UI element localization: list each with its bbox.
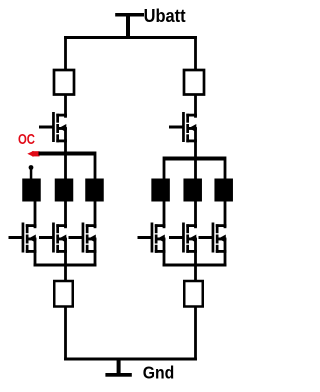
transistor T3 (low side left 2) — [39, 223, 67, 253]
left bus — [39, 152, 97, 156]
right source rail — [163, 264, 227, 267]
svg-text:Ubatt: Ubatt — [144, 6, 186, 26]
wire bus to L5 — [194, 161, 197, 180]
right bus — [163, 157, 227, 161]
left source rail — [34, 264, 97, 267]
wire right drop to R3 — [194, 36, 197, 71]
transistor T2 (low side left 1) — [9, 223, 37, 253]
wire R4 to bottom wire — [194, 307, 197, 361]
svg-text:OC: OC — [18, 132, 35, 148]
wire dot to L1 — [30, 168, 33, 179]
load L6 (coil) — [214, 179, 233, 202]
resistor R1 (top left) — [54, 70, 74, 95]
wire L3 to T4 — [94, 202, 97, 228]
wire T6 source to rail — [163, 250, 166, 267]
transistor T8 (low side right 3) — [199, 223, 227, 253]
resistor R3 (top right) — [184, 70, 204, 95]
Ubatt supply stem — [126, 17, 130, 38]
wire L1 to T2 — [34, 202, 37, 228]
wire bottom horizontal — [64, 358, 197, 361]
transistor T6 (low side right 1) — [138, 223, 166, 253]
transistor T4 (low side left 3) — [69, 223, 97, 253]
wire T2 source to rail — [34, 250, 37, 267]
wire L5 to T7 — [194, 202, 197, 228]
wire T5 source to right bus — [194, 140, 197, 161]
wire T4 source to rail — [94, 250, 97, 267]
transistor T1 (high side left) — [39, 112, 67, 142]
wire L6 to T8 — [224, 202, 227, 228]
wire R3 to T5 drain — [194, 95, 197, 117]
red probe arrow on bus end — [27, 151, 39, 157]
load L2 (coil) — [55, 179, 74, 202]
wire left drop to R1 — [64, 36, 67, 71]
wire rail to R2 — [64, 267, 67, 282]
node dot above L1 — [29, 165, 34, 170]
wire L4 to T6 — [163, 202, 166, 228]
wire rail to R4 — [194, 267, 197, 282]
wire L2 to T3 — [64, 202, 67, 228]
svg-text:Gnd: Gnd — [143, 363, 175, 383]
wire R1 to T1 drain — [64, 95, 67, 117]
resistor R4 (bottom right) — [184, 281, 203, 307]
wire R2 to bottom wire — [64, 307, 67, 361]
wire top horizontal — [64, 36, 197, 39]
ground bar — [105, 373, 131, 377]
wire bus to L4 — [163, 161, 166, 180]
load L4 (coil) — [151, 179, 170, 202]
wire T1 source to left bus — [64, 140, 67, 156]
load L5 (coil) — [183, 179, 202, 202]
transistor T5 (high side right) — [169, 112, 197, 142]
wire T8 source to rail — [224, 250, 227, 267]
load L1 (coil) — [22, 179, 41, 202]
wire bus to L6 — [224, 161, 227, 180]
wire bus to L2 — [64, 156, 67, 180]
wire bus to L3 — [94, 156, 97, 180]
load L3 (coil) — [85, 179, 104, 202]
transistor T7 (low side right 2) — [169, 223, 197, 253]
Ubatt supply bar — [115, 13, 144, 17]
resistor R2 (bottom left) — [54, 281, 73, 307]
wire T3 source to rail — [64, 250, 67, 267]
ground stem — [117, 361, 121, 374]
wire T7 source to rail — [194, 250, 197, 267]
